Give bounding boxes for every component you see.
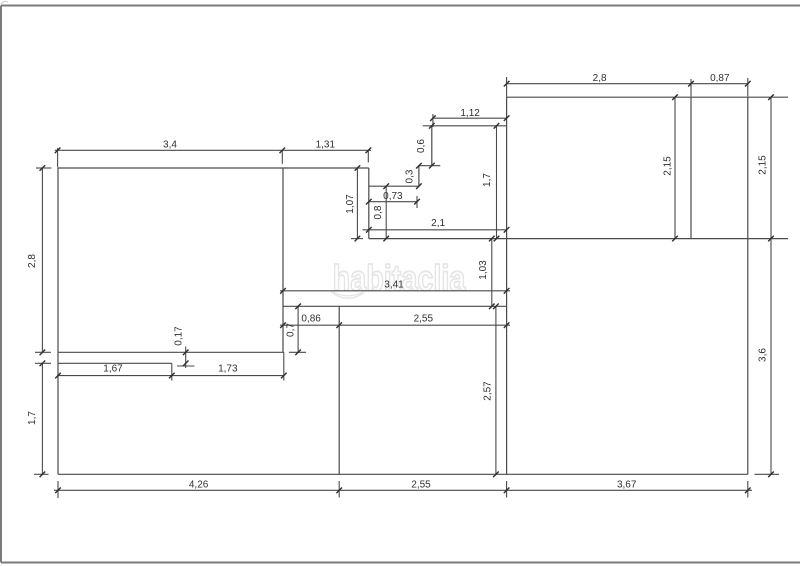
svg-text:2,57: 2,57 — [483, 381, 494, 401]
svg-text:0,86: 0,86 — [301, 314, 321, 325]
svg-text:0,73: 0,73 — [383, 191, 403, 202]
svg-text:2,8: 2,8 — [593, 73, 607, 84]
svg-text:2,1: 2,1 — [431, 218, 445, 229]
svg-text:1,67: 1,67 — [103, 363, 123, 374]
svg-text:1,12: 1,12 — [460, 108, 480, 119]
svg-text:0,3: 0,3 — [405, 169, 416, 183]
svg-text:4,26: 4,26 — [189, 479, 209, 490]
svg-text:3,41: 3,41 — [384, 280, 404, 291]
svg-text:0,87: 0,87 — [710, 73, 730, 84]
svg-text:1,73: 1,73 — [218, 363, 238, 374]
svg-text:2,15: 2,15 — [663, 156, 674, 176]
svg-text:0,6: 0,6 — [416, 139, 427, 153]
svg-text:1,31: 1,31 — [316, 140, 336, 151]
svg-text:1,7: 1,7 — [482, 173, 493, 187]
svg-text:1,7: 1,7 — [27, 411, 38, 425]
svg-text:0,8: 0,8 — [373, 205, 384, 219]
svg-text:2,15: 2,15 — [758, 155, 769, 175]
svg-text:3,4: 3,4 — [163, 140, 177, 151]
svg-text:0,17: 0,17 — [174, 326, 185, 346]
svg-text:1,03: 1,03 — [478, 260, 489, 280]
svg-text:3,67: 3,67 — [617, 479, 637, 490]
svg-text:habitaclia: habitaclia — [333, 257, 467, 298]
svg-text:0,7: 0,7 — [286, 323, 297, 337]
svg-text:2,55: 2,55 — [414, 314, 434, 325]
svg-text:3,6: 3,6 — [758, 348, 769, 362]
svg-text:1,07: 1,07 — [345, 194, 356, 214]
svg-text:2,8: 2,8 — [27, 254, 38, 268]
svg-text:2,55: 2,55 — [411, 479, 431, 490]
